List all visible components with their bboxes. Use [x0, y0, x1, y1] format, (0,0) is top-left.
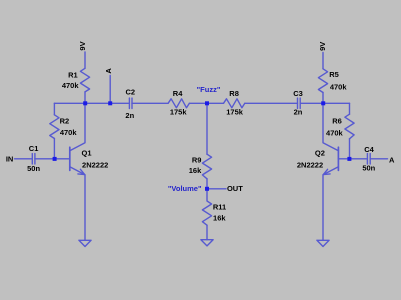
ground symbol right — [317, 240, 329, 246]
wire R11 to ground — [206, 225, 208, 240]
wire R1 to node — [84, 92, 86, 103]
resistor R9 16k — [202, 154, 211, 179]
svg-text:C4: C4 — [364, 145, 374, 154]
wire IN to C1 — [15, 158, 33, 160]
ground symbol left — [79, 240, 91, 246]
wire C3 to R6 corner through node — [300, 102, 349, 104]
junction node net A left — [108, 101, 112, 105]
svg-text:2N2222: 2N2222 — [297, 161, 323, 170]
wire C4 to net A right — [370, 158, 387, 160]
svg-text:470k: 470k — [60, 128, 78, 137]
svg-text:2n: 2n — [125, 111, 134, 120]
svg-text:IN: IN — [6, 155, 14, 164]
capacitor C4 50n left plate — [366, 154, 368, 164]
svg-text:2N2222: 2N2222 — [82, 161, 108, 170]
transistor Q1 emitter lead with arrow — [70, 167, 85, 241]
svg-text:175k: 175k — [170, 108, 188, 117]
wire R6 bottom to base node — [349, 139, 351, 159]
capacitor C4 50n right plate — [369, 154, 371, 164]
wire Fuzz node down to R9 — [206, 103, 208, 154]
junction node net Volume — [205, 187, 209, 191]
junction node at Q1 base — [53, 157, 57, 161]
wire C1 to Q1 base — [35, 158, 69, 160]
transistor Q2 base lead to node — [338, 158, 349, 160]
capacitor C3 2n left plate — [297, 98, 299, 108]
svg-text:R6: R6 — [332, 116, 342, 125]
capacitor C2 2n right plate — [131, 98, 133, 108]
svg-text:OUT: OUT — [227, 184, 243, 193]
wire 9V right to R5 — [322, 53, 324, 69]
wire net A stub to rail — [109, 76, 111, 104]
resistor R2 470k — [50, 115, 59, 139]
resistor R11 16k — [202, 189, 211, 225]
wire C2 to R4 — [132, 102, 168, 104]
svg-text:470k: 470k — [62, 81, 80, 90]
transistor Q2 collector lead — [323, 103, 338, 151]
wire 9V left to R1 — [84, 52, 86, 68]
resistor R1 470k — [80, 68, 89, 92]
svg-text:9V: 9V — [318, 42, 327, 51]
transistor Q1 emitter arrowhead — [78, 169, 85, 174]
svg-text:C2: C2 — [126, 87, 136, 96]
wire node4 to C4 — [349, 158, 367, 160]
capacitor C1 50n left plate — [31, 154, 33, 164]
svg-text:Q1: Q1 — [81, 148, 91, 157]
transistor Q1 2N2222 base bar — [69, 147, 71, 170]
svg-text:C3: C3 — [293, 89, 303, 98]
transistor Q2 emitter arrowhead — [323, 169, 330, 174]
svg-text:A: A — [104, 68, 113, 74]
svg-text:50n: 50n — [362, 164, 375, 173]
svg-text:"Fuzz": "Fuzz" — [197, 85, 221, 94]
wire R5 to node — [322, 93, 324, 104]
wire R6 top lead from rail corner — [349, 103, 351, 114]
svg-text:R2: R2 — [60, 116, 70, 125]
svg-text:50n: 50n — [27, 164, 40, 173]
svg-text:R11: R11 — [213, 202, 226, 211]
junction node Q2 base — [347, 157, 351, 161]
wire top rail left: R2 corner to C2 — [54, 102, 129, 104]
wire R4 to R8 through Fuzz node — [189, 102, 223, 104]
wire Volume node to OUT — [207, 188, 226, 190]
resistor R5 470k — [318, 69, 327, 93]
junction node R1 collector — [83, 101, 87, 105]
svg-text:A: A — [389, 155, 395, 164]
capacitor C2 2n left plate — [128, 98, 130, 108]
transistor Q1 collector lead — [70, 103, 85, 151]
resistor R8 175k — [224, 99, 245, 108]
wire R2 bottom to base node — [53, 139, 55, 159]
svg-text:175k: 175k — [226, 108, 244, 117]
wire R2 top lead from rail corner — [53, 103, 55, 115]
svg-text:R9: R9 — [192, 155, 202, 164]
wire R9 to Volume node — [206, 179, 208, 189]
resistor R4 175k — [168, 99, 189, 108]
wire R8 to C3 — [245, 102, 298, 104]
svg-text:R4: R4 — [173, 89, 183, 98]
svg-text:16k: 16k — [189, 166, 202, 175]
ground symbol middle — [201, 240, 213, 246]
svg-text:470k: 470k — [330, 83, 348, 92]
svg-text:C1: C1 — [29, 144, 39, 153]
junction node R5 collector — [321, 101, 325, 105]
svg-text:2n: 2n — [294, 108, 303, 117]
junction node net Fuzz — [205, 101, 209, 105]
svg-text:16k: 16k — [213, 214, 226, 223]
transistor Q2 emitter lead with arrow — [323, 167, 338, 241]
svg-text:9V: 9V — [78, 41, 87, 50]
svg-text:R1: R1 — [68, 70, 78, 79]
resistor R6 470k — [345, 114, 354, 139]
capacitor C3 2n right plate — [299, 98, 301, 108]
capacitor C1 50n right plate — [34, 154, 36, 164]
svg-text:Q2: Q2 — [315, 148, 325, 157]
svg-text:"Volume": "Volume" — [168, 184, 202, 193]
svg-text:R5: R5 — [329, 70, 339, 79]
svg-text:470k: 470k — [326, 128, 344, 137]
transistor Q2 2N2222 base bar — [337, 147, 339, 170]
svg-text:R8: R8 — [229, 89, 239, 98]
